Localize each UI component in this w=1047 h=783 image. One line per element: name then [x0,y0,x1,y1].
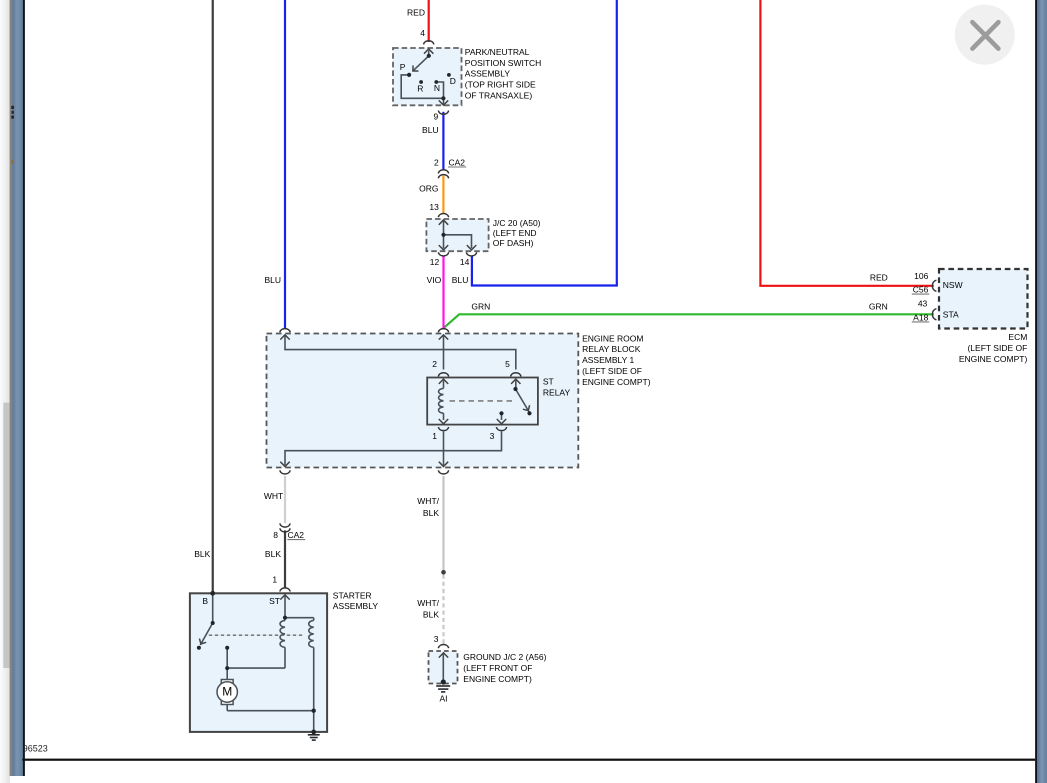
svg-text:BLU: BLU [452,275,469,285]
svg-text:ASSEMBLY: ASSEMBLY [465,69,511,79]
svg-text:C56: C56 [913,285,929,295]
svg-text:R: R [417,83,423,93]
svg-text:RED: RED [870,272,888,282]
svg-text:CA2: CA2 [288,530,305,540]
svg-text:GROUND J/C 2 (A56): GROUND J/C 2 (A56) [463,652,546,662]
svg-text:12: 12 [430,257,440,267]
svg-text:1: 1 [432,431,437,441]
svg-text:RELAY: RELAY [543,387,571,397]
svg-text:RELAY BLOCK: RELAY BLOCK [582,344,641,354]
svg-text:CA2: CA2 [449,158,466,168]
svg-text:13: 13 [429,202,439,212]
svg-text:BLU: BLU [422,125,439,135]
svg-text:BLK: BLK [423,609,439,619]
svg-text:WHT/: WHT/ [417,598,439,608]
svg-text:GRN: GRN [471,301,490,311]
svg-text:106: 106 [914,271,928,281]
svg-text:BLU: BLU [264,275,281,285]
svg-text:ENGINE COMPT): ENGINE COMPT) [582,377,651,387]
svg-text:P: P [400,62,406,72]
svg-text:D: D [450,76,456,86]
svg-text:WHT/: WHT/ [417,496,439,506]
svg-text:ECM: ECM [1008,332,1027,342]
svg-text:3: 3 [490,431,495,441]
svg-text:(LEFT END: (LEFT END [493,228,537,238]
svg-text:14: 14 [460,257,470,267]
svg-text:WHT: WHT [264,491,283,501]
svg-text:(LEFT SIDE OF: (LEFT SIDE OF [582,366,642,376]
svg-text:STA: STA [943,310,959,320]
svg-text:AI: AI [440,694,448,704]
svg-text:2: 2 [434,157,439,167]
svg-text:N: N [434,83,440,93]
svg-text:BLK: BLK [423,508,439,518]
svg-text:A18: A18 [913,313,928,323]
svg-text:POSITION SWITCH: POSITION SWITCH [465,58,542,68]
svg-text:OF TRANSAXLE): OF TRANSAXLE) [465,90,533,100]
svg-text:ASSEMBLY: ASSEMBLY [333,601,379,611]
svg-text:VIO: VIO [427,275,442,285]
svg-text:2: 2 [432,359,437,369]
svg-text:ST: ST [543,376,554,386]
svg-text:ENGINE ROOM: ENGINE ROOM [582,333,643,343]
svg-text:J/C 20 (A50): J/C 20 (A50) [493,218,541,228]
svg-text:4: 4 [420,28,425,38]
svg-text:ST: ST [269,596,280,606]
svg-text:43: 43 [918,299,928,309]
svg-text:GRN: GRN [869,302,888,312]
svg-text:ORG: ORG [419,183,438,193]
svg-text:ENGINE COMPT): ENGINE COMPT) [463,674,532,684]
svg-text:NSW: NSW [943,280,963,290]
svg-text:B: B [202,596,208,606]
svg-text:3: 3 [434,634,439,644]
svg-text:STARTER: STARTER [333,591,372,601]
svg-text:(TOP RIGHT SIDE: (TOP RIGHT SIDE [465,80,536,90]
svg-text:(LEFT FRONT OF: (LEFT FRONT OF [463,663,532,673]
svg-text:ASSEMBLY 1: ASSEMBLY 1 [582,355,634,365]
svg-text:(LEFT SIDE OF: (LEFT SIDE OF [967,343,1027,353]
svg-text:RED: RED [407,7,425,17]
svg-text:96523: 96523 [23,743,48,753]
svg-text:OF DASH): OF DASH) [493,238,534,248]
svg-text:9: 9 [433,111,438,121]
svg-text:8: 8 [273,530,278,540]
svg-text:BLK: BLK [265,549,281,559]
svg-text:BLK: BLK [194,549,210,559]
svg-text:PARK/NEUTRAL: PARK/NEUTRAL [465,47,530,57]
svg-text:5: 5 [505,359,510,369]
svg-text:M: M [222,685,232,699]
svg-text:1: 1 [272,575,277,585]
svg-text:ENGINE COMPT): ENGINE COMPT) [959,354,1028,364]
